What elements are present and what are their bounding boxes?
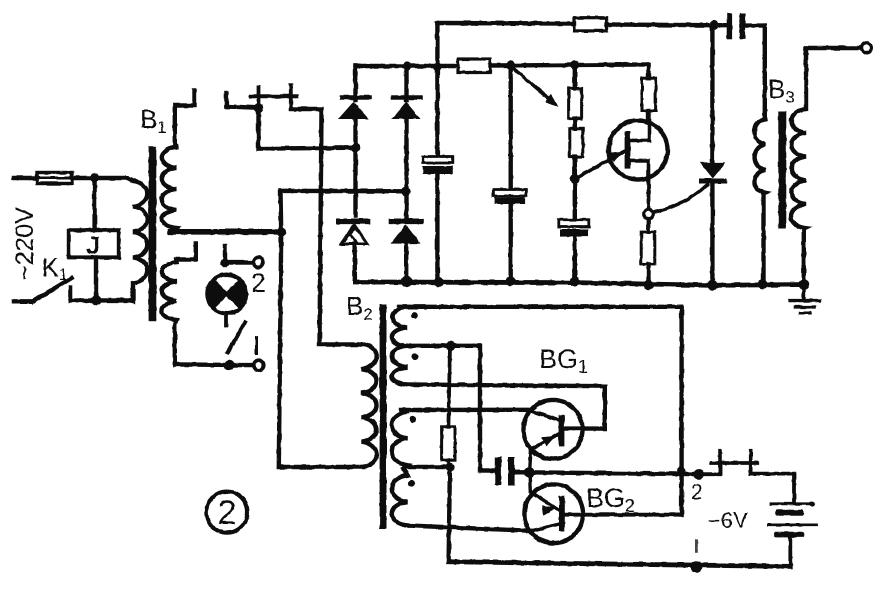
diode D3 (hatched) xyxy=(339,219,367,225)
wire battery minus to bottom rail xyxy=(788,537,792,566)
node W3 polarity dot xyxy=(409,416,416,423)
transistor Q1 xyxy=(609,121,668,180)
wire rail to RP xyxy=(573,65,577,88)
wire W1 column vertical xyxy=(679,307,683,515)
battery GB cell 1 long plate xyxy=(771,502,812,505)
svg-text:−6V: −6V xyxy=(708,508,748,533)
wire SCR gate xyxy=(653,185,707,213)
transformer B1 primary winding xyxy=(127,178,147,301)
wire W4 bottom to BG2 collector xyxy=(408,526,532,531)
svg-text:BG2: BG2 xyxy=(586,483,635,516)
node top rail / SCR anode xyxy=(709,20,719,30)
wire R3 to node xyxy=(573,157,577,220)
diode D4 xyxy=(392,219,421,225)
diode D1 xyxy=(353,66,357,100)
wire contact to battery plus xyxy=(751,474,794,503)
node lamp top junction xyxy=(220,259,229,268)
battery GB cell 2 long plate xyxy=(768,523,816,526)
node selector junction xyxy=(224,360,234,370)
wire top rail xyxy=(437,21,574,26)
relay contact J-2 terminal 1 xyxy=(718,451,722,475)
svg-text:BG1: BG1 xyxy=(539,344,588,377)
wire emitter rail xyxy=(529,472,699,474)
label 1 xyxy=(255,338,258,354)
transformer B1 secondary 2 winding xyxy=(162,262,176,365)
svg-text:K1: K1 xyxy=(42,254,68,284)
wire W3 top to BG1 collector xyxy=(401,408,527,413)
wire lamp bottom stub xyxy=(224,314,228,326)
wire B3 secondary bottom xyxy=(802,229,806,285)
capacitor C5 xyxy=(495,457,502,485)
label 1 (battery side) xyxy=(695,540,698,551)
wire W1 top to right column xyxy=(399,305,682,309)
wire stub left of contact xyxy=(224,93,228,107)
node emitter junction xyxy=(524,467,535,478)
transformer B2 secondary W3 xyxy=(392,412,408,467)
battery GB cell 2 short plate xyxy=(774,532,805,538)
wire bottom return to B1 primary xyxy=(71,298,132,302)
node R6 bottom xyxy=(446,463,454,471)
node B1 secondary junction xyxy=(277,227,287,237)
transformer B2 secondary W2 xyxy=(392,346,408,385)
node C1 top rail tap xyxy=(433,62,441,70)
node C1 minus xyxy=(434,277,444,287)
resistor R5 xyxy=(647,219,651,232)
switch blade (lamp selector) xyxy=(228,322,245,352)
relay contact J-2 terminal 2 xyxy=(749,451,753,474)
wire R6 node down to bottom rail xyxy=(449,467,450,562)
wire B1 secondary 1 bottom (thick) xyxy=(170,229,282,235)
wire bridge plus rail xyxy=(356,64,459,68)
transformer B3 core xyxy=(778,111,786,229)
wire contact to B2 primary top xyxy=(291,109,363,345)
resistor R6 xyxy=(442,427,455,460)
wire to terminal 2 xyxy=(225,260,253,264)
terminal output (open circle) xyxy=(862,43,872,53)
wire top rail down to C1 xyxy=(435,23,439,157)
wire lamp top stub xyxy=(223,246,227,263)
wire B3 primary to minus rail xyxy=(761,193,765,285)
wire bottom rail xyxy=(449,562,791,567)
wire R4 to Q1 collector xyxy=(646,111,650,121)
wire center tap to R6 xyxy=(448,346,450,427)
wire rail to C2 xyxy=(509,65,513,190)
wire fuse to B1 primary top xyxy=(72,176,127,180)
node bridge minus xyxy=(401,276,412,287)
resistor R4 xyxy=(642,78,656,111)
terminal 2 (open circle) xyxy=(253,257,263,267)
node column/rail crossing xyxy=(677,467,687,477)
terminal 1 (open circle) xyxy=(254,360,264,370)
relay contact J-1 terminal 2 xyxy=(289,85,293,109)
wire minus rail xyxy=(355,282,806,285)
node C3 minus xyxy=(570,277,580,287)
node terminal 1 on bottom rail xyxy=(691,561,703,573)
battery GB cell 1 short plate xyxy=(775,510,804,516)
node rail at RP xyxy=(570,60,579,69)
transformer B3 secondary winding xyxy=(791,48,806,229)
svg-text:B1: B1 xyxy=(140,104,167,137)
switch K1 blade xyxy=(33,278,72,301)
diode D2 xyxy=(404,66,408,100)
wire W2 bottom to BG1 base xyxy=(406,385,605,429)
wire W3/W4 tap to node xyxy=(404,465,450,469)
transformer B3 primary lead xyxy=(763,26,767,116)
transistor BG1 xyxy=(524,400,583,459)
node B3 secondary rail xyxy=(798,279,809,290)
wire Q1 emitter to gate node xyxy=(647,180,651,210)
wire rail corner to R4 xyxy=(646,65,650,79)
wire relay coil top lead xyxy=(92,178,96,230)
wire junction down to B2 primary bottom xyxy=(279,232,363,467)
node contact junction xyxy=(254,103,264,113)
transformer B1 secondary 1 top lead xyxy=(175,90,195,147)
node bridge AC2 xyxy=(401,187,410,196)
relay contact J-1 bar xyxy=(251,94,297,98)
resistor R3 xyxy=(570,129,583,157)
potentiometer wiper arrow xyxy=(513,68,550,100)
figure number 2 (circled) xyxy=(206,491,247,532)
svg-text:2: 2 xyxy=(217,494,236,532)
potentiometer RP body xyxy=(569,88,582,118)
capacitor C2 (electrolytic) xyxy=(493,190,526,197)
node fuse junction xyxy=(90,173,99,182)
transformer B1 secondary 1 winding xyxy=(162,147,177,232)
wire Q1 base diagonal from divider tap xyxy=(577,151,625,178)
node C2 minus xyxy=(506,276,516,286)
transistor BG2 xyxy=(524,484,583,543)
thyristor D5 xyxy=(710,25,714,162)
switch K1 fixed contact stub xyxy=(69,288,73,301)
node center tap xyxy=(446,341,456,351)
transformer B2 core xyxy=(380,304,387,529)
capacitor C1 (electrolytic) xyxy=(423,157,453,164)
capacitor C4 xyxy=(727,13,732,39)
node SCR cathode on rail xyxy=(707,280,717,290)
node R5 minus xyxy=(643,280,653,290)
ground xyxy=(802,284,806,300)
node divider tap xyxy=(570,175,580,185)
node W4 polarity dot xyxy=(408,480,415,487)
transformer B1 core xyxy=(149,147,157,322)
wire relay coil bottom lead xyxy=(94,257,98,300)
wire RP to R3 xyxy=(573,119,577,129)
node plus rail xyxy=(402,61,411,70)
wire B3 secondary top to output terminal xyxy=(806,46,862,50)
fuse F1 xyxy=(37,173,72,184)
wire AC input top xyxy=(14,176,37,180)
transformer B2 primary winding xyxy=(362,345,377,467)
node bottom-left junction xyxy=(92,295,102,305)
node W2 polarity dot xyxy=(411,353,418,360)
wire junction up to bridge AC2 xyxy=(281,191,406,232)
svg-text:2: 2 xyxy=(251,268,266,298)
node terminal 2 xyxy=(694,469,704,479)
svg-text:~220V: ~220V xyxy=(11,207,39,280)
wire W1/W2 center tap xyxy=(404,346,495,471)
wire C1 to minus rail xyxy=(435,174,439,282)
wire AC input bottom xyxy=(14,299,33,303)
wire R1 to control rail xyxy=(490,65,649,66)
resistor R1 xyxy=(458,59,490,73)
node B3 primary rail xyxy=(758,279,768,289)
transformer B1 secondary 2 top lead xyxy=(176,244,196,263)
wire C3 to minus rail xyxy=(573,237,577,282)
relay coil J xyxy=(69,230,119,257)
wire B1 secondary 2 bottom to switch node xyxy=(176,362,229,367)
transformer B2 secondary W4 xyxy=(392,469,408,526)
wire C2 to minus rail xyxy=(509,204,513,282)
transformer B3 primary winding xyxy=(754,119,765,193)
svg-text:B3: B3 xyxy=(768,74,795,107)
wire stub to junction xyxy=(226,107,258,108)
node W1 polarity dot xyxy=(411,312,418,319)
node bridge AC1 xyxy=(351,143,360,152)
node gate (open circle) xyxy=(644,209,654,219)
resistor R2 xyxy=(574,18,607,31)
wire contact junction down to bridge AC1 xyxy=(259,108,356,149)
wire node to contact xyxy=(699,466,720,474)
capacitor C3 (electrolytic) xyxy=(559,220,589,227)
relay contact J-2 bar xyxy=(712,461,758,465)
wire to terminal 1 xyxy=(229,363,253,367)
lamp XD (indicator) xyxy=(207,275,246,314)
relay contact J-1 terminal 1 xyxy=(257,87,261,108)
node rail at C2 xyxy=(506,60,515,69)
transformer B2 secondary W1 xyxy=(392,307,408,346)
svg-text:2: 2 xyxy=(691,481,703,504)
svg-text:B2: B2 xyxy=(346,291,373,324)
